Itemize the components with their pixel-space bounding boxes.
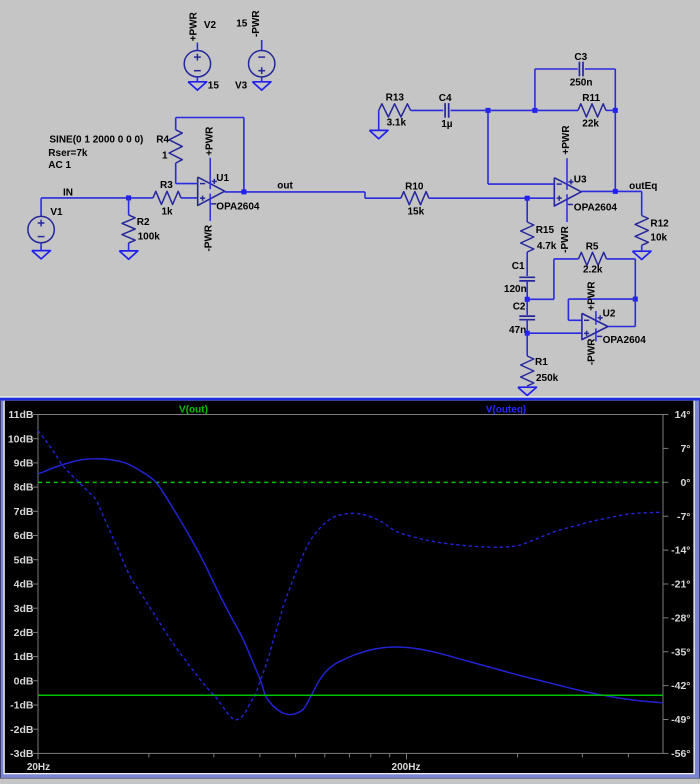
svg-text:6dB: 6dB	[14, 530, 34, 542]
plot pane separator	[0, 396, 700, 397]
svg-text:R10: R10	[405, 181, 424, 192]
svg-text:2.2k: 2.2k	[583, 265, 603, 276]
svg-text:C2: C2	[513, 301, 526, 312]
svg-text:R2: R2	[137, 217, 150, 228]
junction C1/C2/R5	[525, 297, 530, 302]
svg-text:R5: R5	[586, 242, 599, 253]
svg-text:-7°: -7°	[677, 511, 691, 523]
svg-text:R3: R3	[160, 180, 173, 191]
capacitor C4	[439, 93, 488, 130]
wire R10 to U3	[429, 197, 554, 199]
svg-text:outEq: outEq	[629, 181, 657, 192]
resistor R5	[579, 242, 636, 276]
wire C4 node down to U3 -input	[487, 110, 489, 184]
wire U2 output	[608, 326, 635, 328]
V(outeq) phase dotted blue curve	[38, 431, 663, 720]
junction U1 output	[241, 189, 246, 194]
svg-text:-49°: -49°	[671, 714, 690, 726]
svg-text:250n: 250n	[570, 78, 593, 89]
capacitor C3 loop	[535, 52, 615, 110]
V(out) magnitude green solid line	[38, 694, 663, 696]
svg-text:OPA2604: OPA2604	[216, 201, 260, 212]
svg-text:3.1k: 3.1k	[387, 117, 407, 128]
svg-text:-35°: -35°	[671, 646, 690, 658]
ground R12	[632, 251, 651, 259]
svg-text:200Hz: 200Hz	[392, 762, 421, 773]
svg-text:9dB: 9dB	[14, 458, 34, 470]
svg-text:-PWR: -PWR	[204, 224, 215, 251]
svg-text:-2dB: -2dB	[10, 724, 34, 736]
plot background	[5, 401, 694, 773]
voltage source V3	[235, 19, 275, 92]
svg-text:C4: C4	[439, 93, 452, 104]
svg-text:R15: R15	[536, 225, 555, 236]
svg-text:-28°: -28°	[671, 612, 690, 624]
ground R2	[119, 251, 138, 259]
svg-text:5dB: 5dB	[14, 554, 34, 566]
voltage source V2	[184, 20, 216, 82]
svg-text:AC 1: AC 1	[48, 160, 71, 171]
resistor R1	[521, 333, 559, 386]
svg-text:+PWR: +PWR	[561, 125, 572, 155]
plot pane border frame	[0, 401, 700, 779]
svg-text:4dB: 4dB	[14, 579, 34, 591]
SINE directive text	[48, 134, 143, 171]
junction U3 output	[613, 189, 618, 194]
svg-text:+PWR: +PWR	[587, 281, 598, 311]
right phase ticks and labels	[663, 415, 668, 754]
svg-text:R4: R4	[156, 134, 169, 145]
svg-text:C1: C1	[512, 261, 525, 272]
svg-text:U2: U2	[603, 308, 616, 319]
svg-text:+PWR: +PWR	[188, 11, 199, 41]
svg-text:15: 15	[208, 81, 220, 92]
wire U2 -input loop	[568, 298, 635, 300]
junction R10/R15	[525, 196, 530, 201]
svg-text:V1: V1	[50, 207, 63, 218]
wire C4 node to R11 node	[488, 109, 535, 111]
ground V2	[188, 81, 219, 92]
svg-text:V(outeq): V(outeq)	[486, 404, 527, 415]
svg-text:OPA2604: OPA2604	[574, 202, 618, 213]
svg-text:0dB: 0dB	[14, 675, 34, 687]
left dB ticks and labels	[33, 415, 38, 754]
svg-text:-42°: -42°	[671, 680, 690, 692]
junction R11 right	[613, 108, 618, 113]
svg-text:15k: 15k	[408, 206, 425, 217]
svg-text:-PWR: -PWR	[560, 225, 571, 252]
svg-text:SINE(0 1 2000 0 0 0): SINE(0 1 2000 0 0 0)	[49, 134, 143, 145]
junction C2/R1/U2+	[525, 331, 530, 336]
ground R1	[518, 387, 537, 395]
V(out) phase green dashed line	[38, 481, 663, 483]
svg-text:250k: 250k	[536, 373, 559, 384]
junction IN/R2	[126, 195, 131, 200]
svg-text:R12: R12	[650, 218, 669, 229]
svg-text:10dB: 10dB	[8, 433, 34, 445]
svg-text:IN: IN	[63, 187, 73, 198]
svg-text:7°: 7°	[680, 443, 690, 455]
svg-text:4.7k: 4.7k	[537, 241, 557, 252]
svg-text:U3: U3	[574, 174, 587, 185]
svg-text:22k: 22k	[582, 119, 599, 130]
axis box	[38, 415, 663, 754]
svg-text:1: 1	[162, 150, 168, 161]
ground V1	[32, 251, 51, 259]
svg-text:V(out): V(out)	[179, 404, 208, 415]
wire feedback right	[243, 118, 245, 192]
svg-text:-PWR: -PWR	[251, 10, 262, 37]
svg-text:20Hz: 20Hz	[27, 762, 50, 773]
svg-text:11dB: 11dB	[8, 409, 34, 421]
wire U1 feedback top	[176, 117, 244, 119]
svg-text:1k: 1k	[162, 206, 174, 217]
svg-text:14°: 14°	[675, 409, 691, 421]
svg-text:OPA2604: OPA2604	[603, 335, 647, 346]
svg-text:R11: R11	[582, 93, 600, 104]
node out wire	[225, 181, 401, 199]
svg-text:+PWR: +PWR	[204, 126, 215, 156]
resistor R10	[401, 181, 429, 217]
wire feedback left	[175, 118, 177, 130]
svg-text:2dB: 2dB	[14, 627, 34, 639]
svg-text:1dB: 1dB	[14, 651, 34, 663]
svg-text:-21°: -21°	[671, 579, 690, 591]
wire R5 right down	[634, 259, 636, 299]
svg-text:7dB: 7dB	[14, 506, 34, 518]
svg-text:Rser=7k: Rser=7k	[48, 148, 88, 159]
resistor R12	[635, 216, 669, 252]
resistor R11	[535, 93, 615, 129]
capacitor C2	[509, 299, 535, 336]
svg-text:R1: R1	[535, 357, 548, 368]
svg-text:V2: V2	[204, 20, 217, 31]
svg-text:-56°: -56°	[671, 748, 690, 760]
op-amp U2	[582, 308, 646, 346]
wire R11 node down to U3 out	[614, 110, 616, 191]
svg-text:0°: 0°	[680, 477, 690, 489]
ground R13	[369, 130, 388, 138]
svg-text:V3: V3	[235, 81, 248, 92]
svg-text:10k: 10k	[650, 233, 667, 244]
svg-text:15: 15	[236, 19, 248, 30]
wire C1 node to R5	[527, 298, 554, 300]
wire U2 +input	[527, 332, 582, 334]
op-amp U1	[198, 158, 260, 221]
svg-text:47n: 47n	[509, 325, 526, 336]
op-amp U3	[554, 158, 617, 222]
V(outeq) magnitude solid blue curve	[38, 459, 663, 715]
svg-text:-PWR: -PWR	[586, 338, 597, 365]
svg-text:8dB: 8dB	[14, 482, 34, 494]
svg-text:C3: C3	[574, 52, 587, 63]
plot pane top blue band	[0, 398, 700, 401]
voltage source V1	[28, 198, 63, 250]
resistor R3	[153, 180, 198, 217]
resistor R15	[521, 198, 557, 276]
svg-text:out: out	[277, 181, 293, 192]
node outEq wire	[581, 181, 657, 215]
junction R11 left	[532, 108, 537, 113]
svg-text:3dB: 3dB	[14, 603, 34, 615]
resistor R4	[156, 130, 182, 163]
svg-text:-14°: -14°	[671, 545, 690, 557]
svg-text:U1: U1	[216, 173, 229, 184]
bottom frequency ticks	[38, 753, 628, 759]
svg-text:1µ: 1µ	[441, 119, 453, 130]
node IN wire	[41, 187, 153, 198]
svg-text:100k: 100k	[138, 231, 161, 242]
capacitor C1	[504, 261, 535, 299]
svg-text:-1dB: -1dB	[10, 700, 34, 712]
resistor R2	[122, 198, 160, 251]
svg-text:-3dB: -3dB	[10, 748, 34, 760]
resistor R13	[379, 93, 444, 131]
junction U2 feedback	[633, 297, 638, 302]
ground V3	[252, 82, 271, 90]
svg-text:R13: R13	[386, 93, 405, 104]
junction C4 node	[486, 108, 491, 113]
svg-text:120n: 120n	[504, 284, 527, 295]
